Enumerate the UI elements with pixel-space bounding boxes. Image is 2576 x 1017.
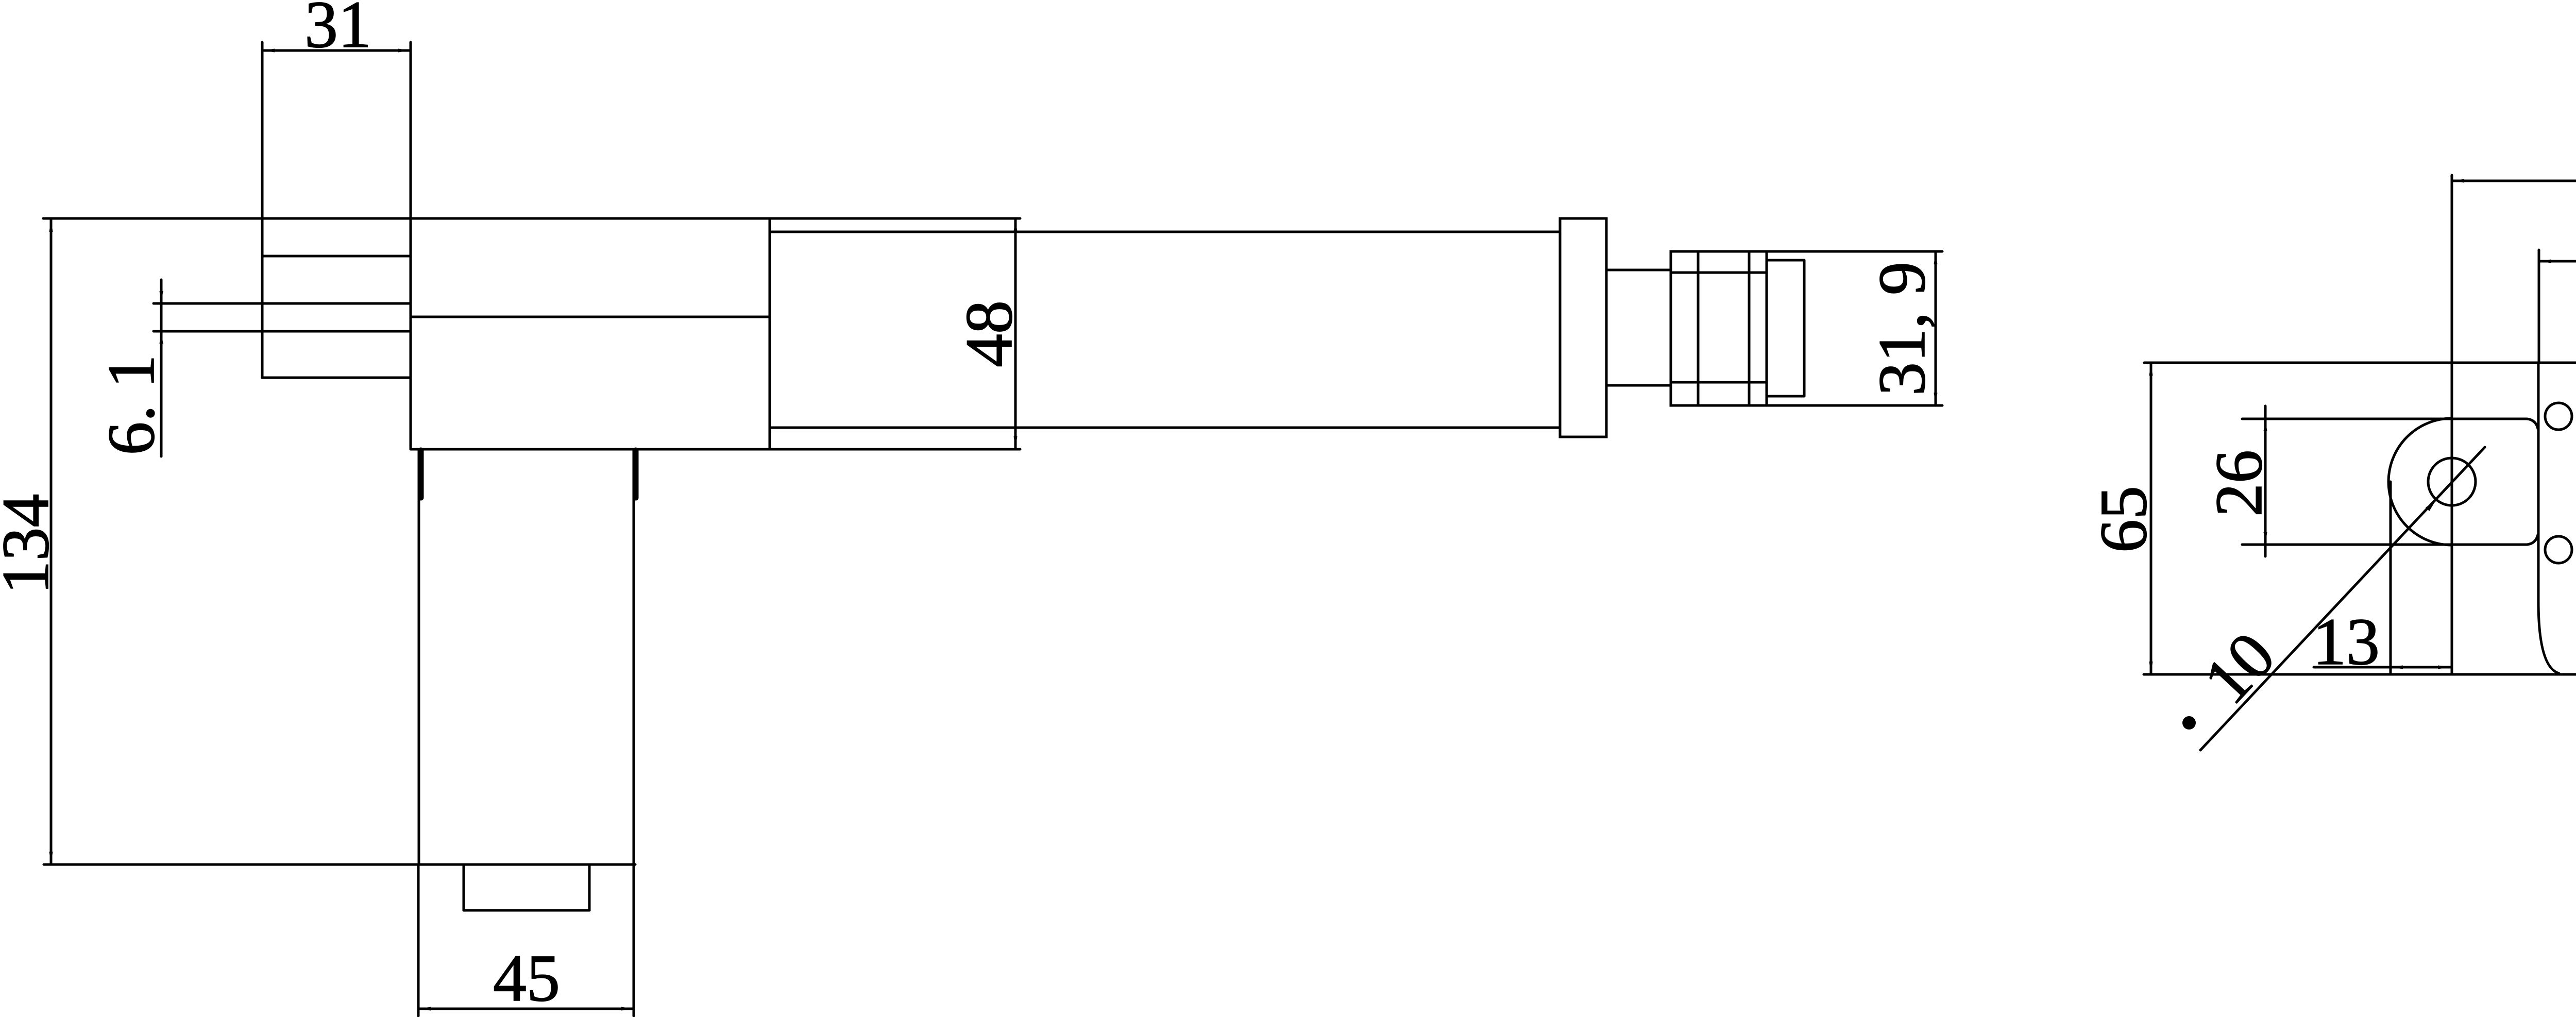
outer tube top line xyxy=(770,231,1560,233)
dim S+145 arrows xyxy=(2452,179,2464,183)
dim 75 line xyxy=(2539,260,2576,263)
dim 6.1 arrows xyxy=(160,291,163,303)
screw hole A xyxy=(2545,403,2572,430)
dim 26 line xyxy=(2264,406,2267,556)
dim 134 line xyxy=(50,218,53,865)
rod neck bottom line xyxy=(1606,384,1671,387)
pivot boss semicircle xyxy=(2388,418,2452,545)
nut block inner horizontal bottom xyxy=(1671,381,1767,384)
nut block outer rect xyxy=(1671,251,1767,405)
dim 26 top extension xyxy=(2242,419,2538,429)
nut block inner vertical 2 xyxy=(1748,251,1751,405)
dim 45 line xyxy=(418,1008,634,1010)
nut block inner vertical 1 xyxy=(1697,251,1700,405)
svg-text:134: 134 xyxy=(0,494,63,595)
svg-text:31, 9: 31, 9 xyxy=(1865,262,1939,396)
motor right nub xyxy=(633,450,639,498)
dim 48 line / cylinder step edge xyxy=(1014,218,1017,449)
dim 13 left extension xyxy=(2389,482,2392,674)
rod end cap top xyxy=(1767,259,1804,262)
top line of housing and 50.5 extension xyxy=(2144,362,2576,364)
dim 13 arrows xyxy=(2391,666,2403,669)
outer tube bottom line xyxy=(770,427,1560,429)
shaft top line xyxy=(154,302,411,305)
nut block inner horizontal top xyxy=(1671,272,1767,274)
dim 31.9 line xyxy=(1935,251,1937,405)
31-block left edge xyxy=(261,42,264,378)
dim 45 right extension xyxy=(633,866,635,1016)
pivot leader arrow xyxy=(2426,499,2438,511)
dim 13 line xyxy=(2314,666,2450,669)
pivot hole leader line xyxy=(2200,447,2485,750)
pivot centerline / S+145 left extension xyxy=(2451,175,2453,674)
gear housing mid line xyxy=(411,316,770,318)
gear housing bottom line xyxy=(411,448,1020,451)
svg-text:6. 1: 6. 1 xyxy=(94,355,168,455)
dim 45 arrows xyxy=(418,1007,431,1011)
rod neck top line xyxy=(1606,269,1671,272)
svg-text:13: 13 xyxy=(2313,605,2380,679)
pivot hole circle xyxy=(2428,458,2476,505)
bottom line of housing xyxy=(2144,673,2576,676)
dim 31.9 arrows xyxy=(1934,252,1938,264)
dim 31 arrows xyxy=(262,49,275,53)
dim S+145 line xyxy=(2452,180,2576,182)
31-block bottom line xyxy=(262,377,411,379)
gearbox left edge with bottom fillet xyxy=(2538,363,2559,673)
svg-text:48: 48 xyxy=(952,300,1026,367)
rod end cap right edge xyxy=(1803,260,1806,396)
dim 65 line xyxy=(2150,363,2153,674)
dim 48 arrows xyxy=(1014,219,1018,231)
dim 6.1 line xyxy=(160,280,163,456)
31-block inner line xyxy=(262,255,411,258)
motor block right edge xyxy=(633,449,635,865)
svg-text:31: 31 xyxy=(304,0,371,62)
pivot leader dot xyxy=(2182,716,2196,730)
svg-text:45: 45 xyxy=(493,941,560,1015)
dim 75 arrows xyxy=(2539,260,2551,263)
bottom line of motor block extended to 134 dim xyxy=(44,863,635,866)
gear housing right edge xyxy=(769,218,771,449)
svg-text:10: 10 xyxy=(2190,618,2290,718)
top outline line of actuator body xyxy=(43,217,1020,220)
dim 26 arrows xyxy=(2264,419,2267,431)
rod end cap bottom xyxy=(1767,395,1804,398)
dim 65 arrows xyxy=(2149,363,2153,376)
rod flange rect xyxy=(1560,218,1606,437)
shaft bottom line xyxy=(154,330,411,333)
motor cap notch left edge xyxy=(463,865,465,910)
motor cap notch right edge xyxy=(588,865,591,910)
dim 31 line xyxy=(262,49,411,52)
dim 31.9 bottom extension xyxy=(1767,404,1942,407)
dim 31.9 top extension xyxy=(1767,250,1942,253)
dim 45 left extension xyxy=(417,866,420,1016)
dim 134 arrows xyxy=(49,219,53,232)
screw hole B xyxy=(2545,536,2572,563)
svg-text:65: 65 xyxy=(2087,486,2161,553)
dim 26 bottom extension xyxy=(2242,535,2538,545)
motor cap notch bottom xyxy=(464,909,589,912)
motor left nub xyxy=(418,450,424,498)
gear housing left edge / 31-block right edge xyxy=(410,42,412,449)
motor block left edge xyxy=(418,449,420,865)
svg-text:26: 26 xyxy=(2202,450,2276,517)
dim 75 left extension above gearbox xyxy=(2538,250,2540,363)
